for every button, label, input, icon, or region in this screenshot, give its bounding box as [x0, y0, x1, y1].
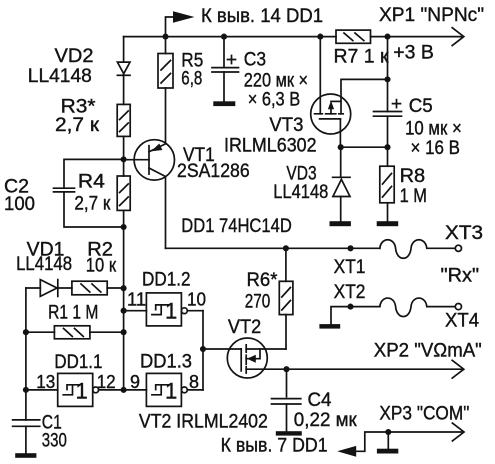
svg-text:R1 1 М: R1 1 М	[48, 302, 98, 323]
arrow to pin 7 DD1 (filled)	[337, 446, 356, 457]
node R8 top	[384, 144, 390, 150]
wire VD3-R8 row	[341, 146, 388, 148]
wire top rail right of R7	[371, 36, 462, 38]
svg-text:VT2 IRLML2402: VT2 IRLML2402	[139, 412, 268, 433]
svg-text:VT3: VT3	[269, 115, 303, 136]
node VT2 gate	[200, 346, 206, 352]
wire collector row to XT1	[166, 247, 380, 249]
svg-text:12: 12	[97, 372, 116, 392]
node R6 top	[283, 245, 289, 251]
svg-text:2,7 к: 2,7 к	[74, 194, 111, 215]
wire XP2 row	[287, 368, 462, 370]
svg-text:+3 В: +3 В	[393, 42, 434, 63]
svg-text:LL4148: LL4148	[16, 254, 72, 275]
svg-text:LL4148: LL4148	[273, 182, 328, 203]
diode VD2	[117, 62, 130, 74]
resistor R7	[336, 30, 371, 43]
capacitor C2 (parallel branch)	[64, 159, 124, 186]
svg-text:× 6,3 В: × 6,3 В	[248, 90, 301, 111]
node VD1/R2 right	[121, 285, 127, 291]
wire rail to VD2	[123, 37, 125, 63]
resistor R6	[285, 248, 287, 281]
svg-text:10 к: 10 к	[86, 256, 117, 277]
svg-text:XP3 "COM": XP3 "COM"	[379, 404, 469, 425]
svg-text:К выв. 14 DD1: К выв. 14 DD1	[201, 6, 323, 27]
ground C4	[276, 431, 302, 435]
svg-text:XP2 "VΩmA": XP2 "VΩmA"	[374, 341, 482, 362]
svg-text:1 М: 1 М	[400, 186, 427, 207]
gate DD1.3 (Schmitt inverter)	[146, 373, 181, 406]
resistor R2	[72, 281, 107, 295]
node DD1.1 input	[23, 387, 29, 393]
capacitor C3	[223, 37, 225, 68]
svg-text:9: 9	[130, 372, 140, 392]
svg-text:270: 270	[245, 291, 270, 312]
ground C1	[15, 453, 36, 458]
svg-text:DD1.3: DD1.3	[140, 352, 192, 373]
arrow XP3	[452, 423, 464, 441]
wire R3 to base node	[123, 136, 125, 159]
ground R8	[377, 221, 399, 226]
node rail-R5	[162, 34, 168, 40]
svg-text:IRLML6302: IRLML6302	[224, 135, 317, 156]
arrow to pin 14 DD1 (filled)	[173, 11, 195, 22]
svg-text:13: 13	[36, 372, 55, 392]
svg-text:R4: R4	[78, 172, 105, 193]
svg-text:R8: R8	[400, 166, 426, 187]
capacitor C5	[374, 111, 402, 113]
ground VD3	[330, 221, 351, 226]
svg-text:11: 11	[127, 290, 146, 310]
svg-text:R6*: R6*	[247, 270, 279, 291]
resistor R3	[117, 104, 130, 136]
wire top rail left	[124, 36, 336, 38]
wire paralleled outputs vertical	[202, 311, 204, 390]
svg-text:XP1 "NPNс": XP1 "NPNс"	[379, 5, 484, 26]
svg-text:DD1 74HC14D: DD1 74HC14D	[181, 216, 291, 237]
wire left column	[25, 288, 27, 420]
svg-text:1: 1	[165, 298, 177, 323]
svg-text:10 мк ×: 10 мк ×	[405, 119, 462, 140]
wire to VT3 source	[341, 79, 388, 113]
svg-text:× 16 В: × 16 В	[411, 138, 461, 159]
svg-text:R7 1 к: R7 1 к	[334, 47, 390, 68]
svg-text:XT1: XT1	[334, 257, 366, 278]
svg-text:1: 1	[165, 378, 177, 403]
terminal XT3	[455, 245, 461, 251]
wire main middle vertical	[123, 227, 125, 390]
wire VD2-R3	[123, 74, 125, 105]
svg-text:220 мк ×: 220 мк ×	[244, 70, 308, 91]
node DD1.2 input	[121, 308, 127, 314]
wire XT2 row	[331, 307, 380, 325]
svg-text:XT4: XT4	[445, 311, 480, 332]
node R4 bottom	[121, 224, 127, 230]
svg-text:2SA1286: 2SA1286	[177, 161, 250, 182]
svg-text:1: 1	[76, 378, 88, 403]
arrow XP1	[452, 28, 464, 46]
svg-text:DD1.1: DD1.1	[54, 352, 102, 373]
wire XP3 row	[356, 432, 462, 451]
resistor R8	[380, 166, 394, 203]
node C4 top	[283, 366, 289, 372]
svg-text:2,7 к: 2,7 к	[55, 115, 100, 136]
node DD1.1 out / DD1.3 in	[121, 387, 127, 393]
svg-text:330: 330	[42, 431, 67, 452]
svg-text:0,22 мк: 0,22 мк	[294, 410, 358, 431]
terminal XT4	[455, 304, 461, 310]
node R1 right	[121, 329, 127, 335]
svg-text:VT2: VT2	[228, 317, 261, 338]
gate DD1.1 (Schmitt inverter)	[58, 373, 93, 406]
node VD3 top	[338, 144, 344, 150]
svg-text:C4: C4	[308, 390, 332, 411]
ground C3	[213, 101, 235, 106]
svg-text:10: 10	[187, 290, 206, 310]
svg-text:VD2: VD2	[55, 46, 94, 67]
svg-text:XT2: XT2	[334, 282, 366, 303]
resistor R5	[165, 37, 167, 54]
capacitor C1	[13, 419, 40, 421]
transistor VT1 (PNP 2SA1286)	[134, 140, 174, 180]
svg-text:XT3: XT3	[445, 223, 483, 244]
ground XP3	[377, 449, 398, 454]
node rail-R7-right +3V	[384, 34, 390, 40]
wire +3V down to C5	[387, 37, 389, 112]
transistor VT3 (P-MOSFET IRLML6302)	[311, 94, 351, 134]
svg-text:DD1.2: DD1.2	[142, 270, 191, 291]
arrow XP2	[452, 360, 464, 378]
node R3/R4/base	[121, 156, 127, 162]
svg-text:100: 100	[4, 194, 35, 215]
svg-text:LL4148: LL4148	[28, 66, 92, 87]
svg-text:"Rx": "Rx"	[441, 266, 480, 287]
wire squiggle XT2-XT4	[380, 298, 455, 317]
svg-text:C3: C3	[244, 49, 266, 70]
node rail-R7-left	[317, 34, 323, 40]
svg-text:C5: C5	[409, 96, 433, 117]
node XP3 ground	[385, 429, 391, 435]
ground XT2	[319, 324, 340, 329]
diode VD3	[340, 147, 342, 177]
gate DD1.2 (Schmitt inverter)	[146, 293, 181, 326]
wire squiggle XT1-XT3	[380, 240, 455, 259]
svg-text:6,8: 6,8	[181, 69, 202, 90]
transistor VT2 (N-MOSFET IRLML2402)	[227, 338, 267, 378]
node XT1	[347, 245, 353, 251]
capacitor C4	[286, 369, 288, 397]
node C5/VT3 branch	[384, 76, 390, 82]
resistor R4	[123, 159, 125, 176]
node XT2	[347, 304, 353, 310]
svg-text:8: 8	[189, 372, 199, 392]
diode VD1	[26, 287, 40, 289]
svg-text:К выв. 7 DD1: К выв. 7 DD1	[221, 436, 328, 457]
node R1 left	[23, 329, 29, 335]
node rail-C3	[221, 34, 227, 40]
resistor R1	[26, 331, 55, 333]
wire branch up to pin 14 DD1	[166, 17, 174, 37]
